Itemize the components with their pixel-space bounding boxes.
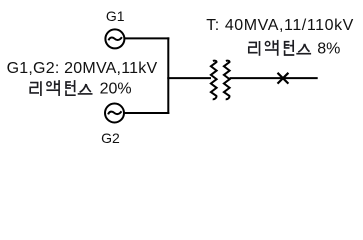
text 리액턴스 (reactance) right (249, 40, 311, 56)
svg-text:G1: G1 (106, 8, 125, 24)
svg-text:G2: G2 (101, 130, 120, 146)
bus vertical wire (167, 37, 169, 114)
generator G1 sine wave (109, 37, 122, 40)
transformer T primary winding (211, 61, 217, 100)
svg-text:G1,G2: 20MVA,11kV: G1,G2: 20MVA,11kV (7, 60, 158, 77)
svg-text:20%: 20% (100, 81, 132, 98)
transformer T secondary winding (224, 61, 230, 100)
wire G1 to bus (125, 37, 170, 39)
wire transformer to line end (230, 77, 318, 79)
generator G1 circle (105, 29, 124, 48)
generator G2 sine wave (108, 111, 121, 114)
wire G2 to bus (124, 112, 169, 114)
generator G2 circle (105, 104, 124, 123)
fault X mark (278, 73, 289, 84)
svg-text:8%: 8% (317, 41, 340, 58)
white background (0, 0, 363, 156)
svg-text:T: 40MVA,11/110kV: T: 40MVA,11/110kV (206, 17, 354, 34)
text 리액턴스 (reactance) left (30, 80, 92, 96)
wire bus to transformer (167, 77, 211, 79)
